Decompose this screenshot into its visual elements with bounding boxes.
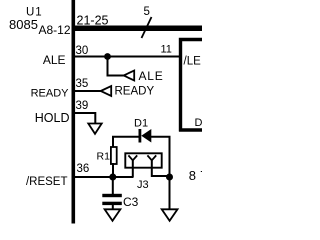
node junction dot reset-ground [166,174,173,181]
wire ALE branch vertical [107,57,109,76]
svg-text:21-25: 21-25 [77,14,109,28]
ground arrow HOLD [88,124,101,134]
node junction dot reset-RC [109,174,116,181]
wire right branch to ground [169,177,171,210]
wire ALE branch horizontal [107,75,125,77]
diode D1 [139,129,152,143]
IC U2 left/bottom edges [181,40,203,132]
jumper J3 [125,153,169,177]
svg-text:/RESET: /RESET [26,176,68,188]
svg-text:A8-12: A8-12 [38,23,70,37]
svg-text:11: 11 [161,44,172,56]
ground C3 [105,209,121,221]
svg-text:D: D [195,117,203,129]
resistor R1 [111,147,117,164]
svg-text:39: 39 [76,100,89,112]
svg-text:36: 36 [77,163,90,175]
node junction dot ALE [104,53,111,60]
ground right [162,209,178,221]
svg-text:HOLD: HOLD [35,111,70,125]
svg-text:8085: 8085 [9,17,38,32]
svg-text:35: 35 [76,78,89,90]
svg-text:5: 5 [144,6,150,18]
wire pin36 reset rail [75,176,134,178]
wire R1 bottom [112,163,114,177]
svg-text:D1: D1 [134,118,148,130]
wire pin39 [75,113,95,124]
svg-text:8: 8 [189,168,196,183]
svg-text:30: 30 [76,45,89,57]
svg-text:J3: J3 [137,179,149,191]
svg-text:ALE: ALE [139,69,164,83]
svg-text:READY: READY [31,88,70,100]
IC U1 right edge [72,0,76,224]
wire pin30 to U2 pin11 [75,56,179,58]
capacitor C3 [102,178,122,210]
wire D1 to right branch [151,137,170,177]
off-page connector ALE [124,71,135,81]
wire pin35 [75,90,101,92]
bus width slash [142,17,152,38]
svg-text:C3: C3 [123,195,139,209]
svg-text:ALE: ALE [43,53,66,67]
wire R1 top to loop [113,137,139,148]
svg-text:READY: READY [115,86,155,98]
svg-text:/LE: /LE [184,56,202,68]
wire address bus A8-12 [75,26,202,32]
svg-text:T: T [201,168,203,183]
off-page connector READY [101,86,112,96]
svg-text:R1: R1 [97,151,111,163]
